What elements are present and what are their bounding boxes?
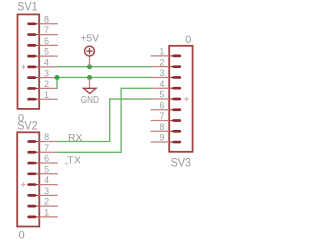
junction dot on +5V net [87, 64, 92, 69]
svg-text:5: 5 [44, 164, 49, 174]
wire net RX: SV2 pin8 to SV3 pin5 [57, 99, 152, 141]
SV1 pin 8 [29, 23, 58, 25]
SV1 pin 2 [29, 87, 58, 89]
svg-text:3: 3 [159, 68, 164, 78]
SV3 pin 5 [151, 98, 180, 100]
SV2 pin 3 [29, 194, 58, 196]
svg-text:SV3: SV3 [171, 156, 192, 170]
SV2 pin 2 [29, 205, 58, 207]
SV3 pin 6 [151, 109, 180, 111]
SV1 polarity mark + [21, 65, 26, 70]
svg-text:3: 3 [44, 186, 49, 196]
SV1 pin 7 [29, 34, 58, 36]
connector SV1 [18, 14, 58, 109]
SV2 pin 7 [29, 151, 58, 153]
svg-text:GND: GND [81, 95, 99, 106]
+5V supply symbol P1 [85, 46, 95, 67]
svg-text:SV2: SV2 [17, 119, 38, 133]
SV3 pin 7 [151, 120, 180, 122]
svg-text:1: 1 [44, 207, 49, 217]
svg-text:9: 9 [159, 133, 164, 143]
junction dot on GND net at SV1 pin3 [55, 75, 60, 80]
svg-text:7: 7 [44, 143, 49, 153]
svg-text:3: 3 [44, 68, 49, 78]
SV2 pin 5 [29, 173, 58, 175]
SV2 pin 4 [29, 184, 58, 186]
svg-text:0: 0 [185, 34, 191, 46]
svg-text:RX: RX [68, 133, 83, 144]
SV2 pin 1 [29, 216, 58, 218]
wire net GND: SV1 pin3 to SV3 pin3 [57, 76, 152, 78]
SV1 pin 5 [29, 55, 58, 57]
label origin cross of TX [65, 162, 69, 166]
svg-text:SV1: SV1 [17, 0, 38, 14]
SV1 pin 3 [29, 77, 58, 79]
svg-text:2: 2 [44, 79, 49, 89]
svg-text:6: 6 [44, 154, 49, 164]
svg-text:+5V: +5V [80, 33, 99, 44]
svg-text:6: 6 [159, 100, 164, 110]
SV2 pin 8 [29, 141, 58, 143]
svg-text:2: 2 [159, 57, 164, 67]
wire net GND: drop to SV1 pin2 [56, 77, 58, 88]
svg-text:4: 4 [44, 175, 49, 185]
SV3 pin 9 [151, 141, 180, 143]
svg-text:4: 4 [44, 57, 49, 67]
SV1 pin 6 [29, 44, 58, 46]
GND supply symbol [83, 78, 96, 94]
SV1 body [18, 14, 40, 109]
SV3 pin 1 [151, 55, 180, 57]
connector SV3 [151, 46, 193, 152]
SV1 pin 4 [29, 66, 58, 68]
SV3 pin 8 [151, 130, 180, 132]
svg-text:0: 0 [19, 230, 25, 240]
SV1 pin 1 [29, 98, 58, 100]
connector SV2 [17, 132, 58, 226]
SV3 pin 4 [151, 87, 180, 89]
svg-text:1: 1 [44, 90, 49, 100]
svg-text:8: 8 [44, 132, 49, 142]
junction dot on GND net at GND symbol [87, 75, 92, 80]
svg-text:6: 6 [44, 36, 49, 46]
SV2 body [17, 132, 39, 226]
svg-text:2: 2 [44, 197, 49, 207]
svg-text:5: 5 [44, 47, 49, 57]
SV2 polarity mark + [21, 182, 26, 187]
wire net TX: SV2 pin7 to SV3 pin4 [57, 88, 152, 152]
SV3 polarity mark + [184, 97, 189, 102]
SV3 body [169, 46, 192, 152]
wire net +5V: SV1 pin4 to SV3 pin2 [57, 66, 152, 68]
svg-text:TX: TX [67, 156, 81, 167]
svg-text:8: 8 [159, 122, 164, 132]
SV3 pin 2 [151, 66, 180, 68]
svg-text:4: 4 [159, 79, 164, 89]
SV3 pin 3 [151, 76, 180, 78]
svg-text:7: 7 [159, 111, 164, 121]
svg-text:8: 8 [44, 14, 49, 24]
svg-text:7: 7 [44, 25, 49, 35]
svg-text:1: 1 [159, 47, 164, 57]
svg-text:5: 5 [159, 90, 164, 100]
SV2 pin 6 [29, 162, 58, 164]
